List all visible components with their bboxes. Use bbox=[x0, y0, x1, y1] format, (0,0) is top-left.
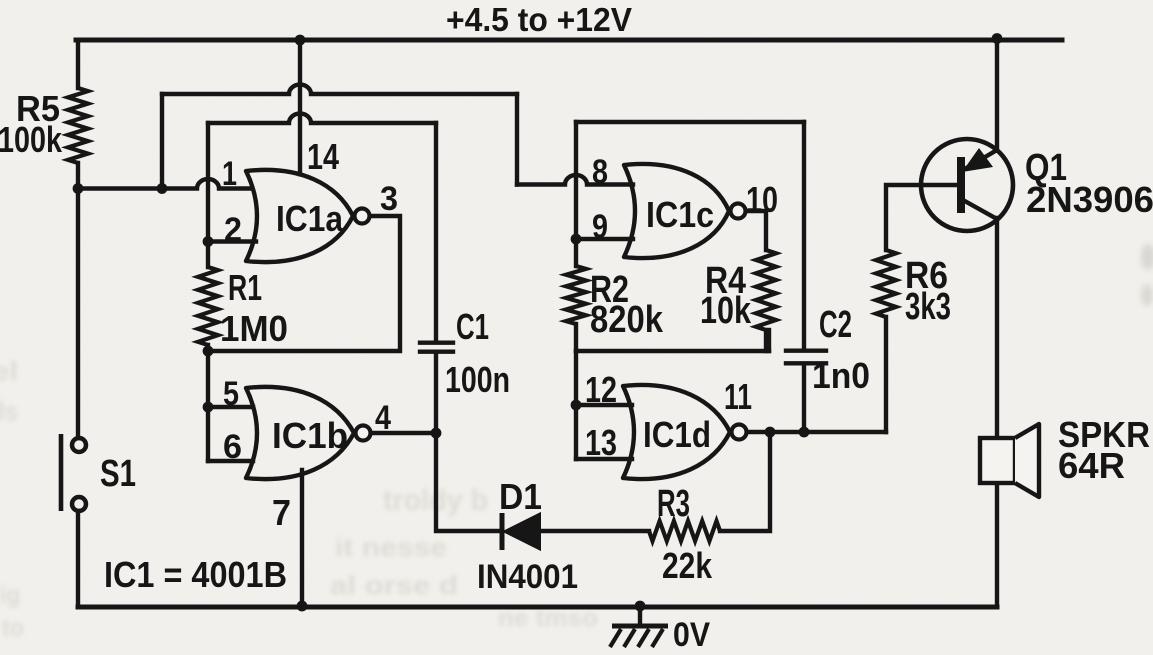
svg-text:C2: C2 bbox=[819, 304, 852, 346]
svg-text:10k: 10k bbox=[700, 290, 752, 332]
svg-text:820k: 820k bbox=[590, 299, 664, 341]
svg-text:S1: S1 bbox=[100, 453, 136, 495]
svg-text:11: 11 bbox=[724, 376, 752, 417]
svg-text:100k: 100k bbox=[0, 119, 63, 160]
svg-text:12: 12 bbox=[585, 369, 617, 410]
svg-text:IC1 = 4001B: IC1 = 4001B bbox=[104, 554, 287, 595]
svg-text:0V: 0V bbox=[673, 616, 710, 654]
svg-text:64R: 64R bbox=[1058, 445, 1125, 486]
svg-text:22k: 22k bbox=[662, 545, 713, 586]
svg-text:R3: R3 bbox=[657, 483, 690, 525]
svg-text:5: 5 bbox=[223, 375, 239, 413]
svg-text:3k3: 3k3 bbox=[905, 286, 951, 328]
svg-text:1: 1 bbox=[222, 155, 237, 193]
svg-text:ig: ig bbox=[0, 582, 20, 609]
svg-text:IN4001: IN4001 bbox=[477, 558, 578, 596]
svg-text:1M0: 1M0 bbox=[220, 308, 288, 349]
svg-text:C1: C1 bbox=[456, 306, 489, 347]
svg-text:ds: ds bbox=[0, 396, 18, 426]
svg-text:8: 8 bbox=[592, 153, 608, 191]
svg-text:14: 14 bbox=[307, 136, 339, 177]
svg-text:D1: D1 bbox=[499, 476, 542, 517]
svg-text:2N3906: 2N3906 bbox=[1026, 179, 1153, 220]
svg-text:3: 3 bbox=[380, 180, 398, 218]
svg-text:100n: 100n bbox=[445, 359, 510, 400]
svg-text:1n0: 1n0 bbox=[812, 355, 870, 396]
svg-text:10: 10 bbox=[746, 179, 778, 220]
svg-text:+4.5 to +12V: +4.5 to +12V bbox=[446, 1, 632, 38]
svg-text:R1: R1 bbox=[228, 267, 262, 308]
svg-text:2: 2 bbox=[224, 211, 242, 249]
svg-text:7: 7 bbox=[272, 492, 291, 533]
svg-text:el: el bbox=[0, 356, 18, 386]
svg-text:to: to bbox=[2, 615, 24, 642]
svg-text:it nesse: it nesse bbox=[335, 532, 447, 562]
svg-text:6: 6 bbox=[223, 428, 242, 466]
svg-text:IC1b: IC1b bbox=[272, 415, 348, 456]
svg-text:4: 4 bbox=[375, 399, 391, 437]
svg-text:IC1c: IC1c bbox=[646, 194, 714, 235]
svg-text:9: 9 bbox=[592, 208, 608, 246]
svg-text:13: 13 bbox=[585, 422, 617, 463]
svg-text:al orse d: al orse d bbox=[330, 570, 458, 600]
svg-text:IC1a: IC1a bbox=[276, 198, 344, 239]
svg-text:IC1d: IC1d bbox=[643, 414, 711, 455]
